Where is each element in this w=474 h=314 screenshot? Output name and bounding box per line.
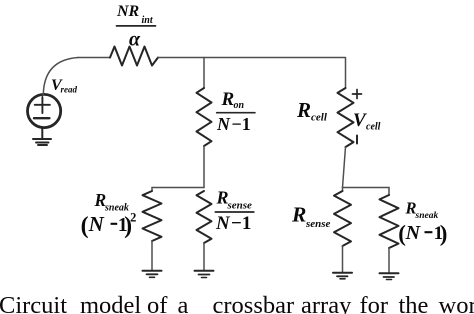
svg-text:R: R bbox=[291, 203, 306, 227]
svg-text:−1: −1 bbox=[232, 114, 251, 134]
svg-text:N: N bbox=[216, 114, 231, 134]
svg-text:R: R bbox=[296, 98, 311, 122]
svg-text:cell: cell bbox=[311, 112, 328, 124]
svg-text:int: int bbox=[142, 15, 154, 26]
svg-text:NR: NR bbox=[116, 3, 140, 20]
svg-text:N: N bbox=[215, 213, 231, 234]
svg-text:2: 2 bbox=[130, 211, 136, 225]
svg-text:sneak: sneak bbox=[415, 211, 439, 221]
svg-text:α: α bbox=[129, 28, 141, 50]
svg-text:R: R bbox=[221, 89, 235, 110]
svg-text:cell: cell bbox=[366, 122, 381, 133]
svg-text:on: on bbox=[234, 100, 245, 111]
svg-text:sense: sense bbox=[305, 218, 331, 230]
svg-text:): ) bbox=[440, 221, 448, 246]
svg-text:(: ( bbox=[81, 213, 89, 239]
svg-text:N: N bbox=[405, 222, 422, 244]
svg-text:sneak: sneak bbox=[104, 202, 129, 213]
svg-text:read: read bbox=[61, 85, 78, 95]
svg-text:N: N bbox=[88, 212, 105, 236]
svg-text:sense: sense bbox=[227, 200, 253, 212]
svg-text:−1: −1 bbox=[231, 213, 251, 234]
svg-text:V: V bbox=[353, 110, 367, 131]
